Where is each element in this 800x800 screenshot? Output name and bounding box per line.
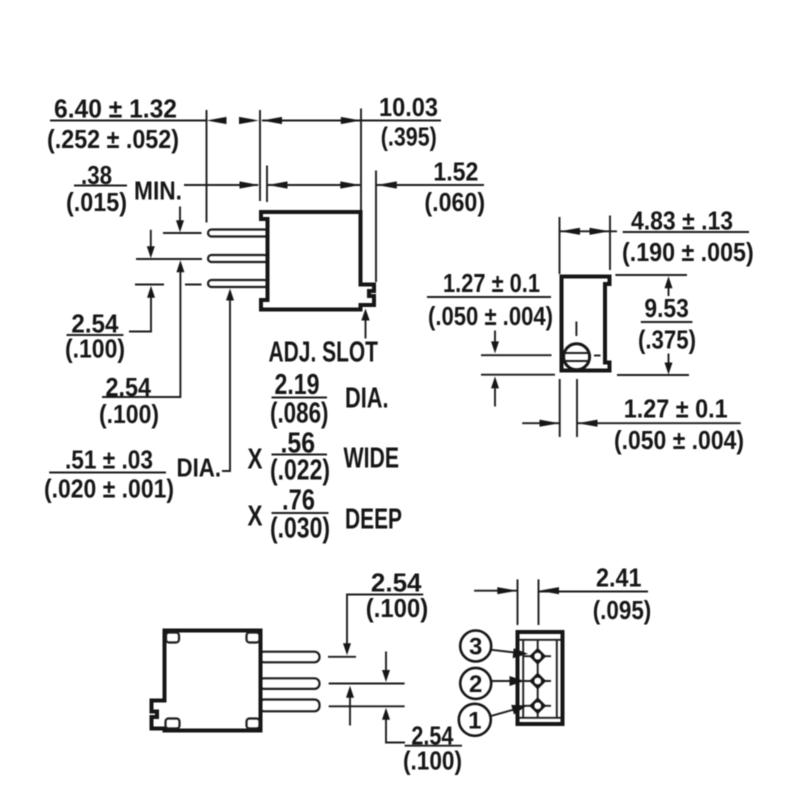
trimmer body front view	[562, 277, 610, 371]
fraction bar 9.53	[641, 321, 693, 323]
svg-text:2.41: 2.41	[596, 565, 642, 593]
pin 3 terminal diamond	[529, 648, 546, 665]
arrow down at rear pin middle	[385, 652, 387, 671]
dimension line 4.83	[560, 230, 617, 232]
pin view inner bottom line	[520, 717, 561, 719]
extension line front body right x=610	[609, 216, 611, 271]
arrow right at 517.3	[497, 587, 517, 594]
svg-text:(.022): (.022)	[270, 455, 330, 487]
corner pad bottom left	[166, 719, 180, 729]
rear view pin middle lead	[259, 678, 320, 689]
svg-text:(.050 ± .004): (.050 ± .004)	[614, 427, 744, 455]
svg-text:(.100): (.100)	[99, 401, 159, 429]
svg-text:(.086): (.086)	[270, 398, 329, 430]
arrow left at 577.5	[578, 420, 598, 427]
svg-text:1: 1	[468, 707, 481, 734]
trimmer body rear view with slot boss	[152, 631, 261, 731]
arrow up at rear pin middle	[349, 698, 351, 726]
arrow up at pin3 for wire dia leader	[226, 289, 234, 301]
extension line pin3 center dashed	[135, 284, 164, 286]
svg-text:(.395): (.395)	[381, 124, 437, 152]
svg-text:(.375): (.375)	[638, 327, 696, 355]
pin 1 terminal diamond	[529, 697, 546, 714]
rear view pin top lead	[259, 652, 320, 663]
rear view pin bottom lead	[259, 700, 320, 712]
leader from circle 2 to pin 2	[492, 680, 511, 682]
circle number 1	[459, 704, 491, 736]
extension line body bottom left	[481, 374, 555, 376]
arrow up at pin3 line with leader to 2.54 first	[147, 286, 155, 298]
dimension line 2.41 right piece with fraction bar	[539, 591, 648, 593]
fraction bar 2.54 bottom	[405, 745, 462, 747]
circle number 3	[460, 631, 491, 662]
fraction bar .76	[272, 512, 329, 514]
arrow down at pin2 line	[150, 230, 152, 248]
fraction bar .51	[49, 472, 166, 474]
arrow right at 360.3	[340, 181, 360, 188]
extension line below body left x=559.7	[559, 379, 561, 437]
circle number 2	[460, 668, 491, 699]
pin 1 (side view top lead)	[208, 230, 268, 237]
svg-text:DIA.: DIA.	[177, 455, 222, 483]
dimension line 2.41 left piece	[474, 590, 517, 592]
arrow right at 360.8	[341, 117, 361, 124]
svg-text:2.54: 2.54	[411, 723, 454, 751]
svg-text:6.40 ± 1.32: 6.40 ± 1.32	[54, 96, 177, 124]
arrow left at 206.5	[207, 117, 227, 124]
screw slot chord upper	[564, 352, 589, 354]
svg-text:(.030): (.030)	[270, 513, 330, 545]
screw centerline vertical dash	[575, 322, 577, 337]
extension line screw center left	[481, 354, 552, 356]
arrow left at 539	[539, 587, 559, 594]
svg-text:2.54: 2.54	[371, 570, 422, 598]
extension line pin shoulder x=267	[266, 166, 268, 203]
arrow left at 560	[560, 228, 580, 235]
arrow up at rear pin bottom with leader to 2.54 bottom	[386, 720, 405, 743]
fraction bar 4.83	[623, 231, 749, 233]
fraction bar .38	[74, 185, 127, 187]
screw slot chord lower	[564, 360, 589, 362]
pin view inner top line	[520, 639, 561, 641]
extension line pinview left x=517.5	[517, 579, 519, 625]
arrow right at 609.5	[590, 228, 610, 235]
extension line rear pin middle	[329, 683, 405, 685]
leader from circle 1 to pin 1	[490, 710, 514, 717]
arrow right at 259	[239, 117, 259, 124]
svg-text:4.83 ± .13: 4.83 ± .13	[631, 208, 733, 236]
svg-text:9.53: 9.53	[644, 295, 688, 323]
svg-text:(.060): (.060)	[424, 189, 485, 217]
extension line body right edge x=361	[360, 109, 362, 211]
svg-text:(.252 ± .052): (.252 ± .052)	[47, 126, 179, 154]
pin3 cross stub	[524, 655, 552, 657]
svg-text:2: 2	[469, 671, 482, 698]
svg-text:.38: .38	[81, 162, 112, 190]
svg-text:3: 3	[469, 634, 482, 661]
pin 2 (side view middle lead)	[208, 255, 268, 262]
svg-text:1.52: 1.52	[433, 159, 478, 187]
extension line rear pin bottom	[329, 705, 405, 707]
arrow left at 262	[262, 117, 282, 124]
svg-text:(.015): (.015)	[66, 189, 127, 217]
extension line body top right	[615, 274, 687, 276]
arrow left at 376.8	[377, 181, 397, 188]
extension line pinview pin center x=538.5	[538, 579, 540, 625]
dimension line 1.52 right part with text underline	[377, 184, 484, 186]
svg-text:ADJ. SLOT: ADJ. SLOT	[269, 337, 379, 369]
corner pad top right	[247, 633, 260, 643]
leader from circle 3 to pin 3	[491, 650, 515, 653]
svg-text:(.100): (.100)	[403, 748, 462, 776]
screw centerline horizontal dash	[594, 355, 601, 357]
svg-text:10.03: 10.03	[379, 94, 438, 122]
dimension line 1.27 lower right piece with fraction bar	[578, 422, 741, 424]
corner pad top left	[166, 633, 179, 643]
pin2 cross stub	[524, 680, 552, 682]
fraction bar 2.19	[272, 397, 328, 399]
fraction bar .56	[272, 454, 328, 456]
extension line pin tips x=206.5	[206, 110, 208, 223]
svg-text:DEEP: DEEP	[345, 504, 402, 536]
arrow right at 259.5	[240, 181, 260, 188]
svg-text:(.020 ± .001): (.020 ± .001)	[44, 476, 174, 504]
leader 2.54 top with down arrow	[347, 595, 423, 646]
extension line pin2 center	[136, 258, 202, 260]
arrow down at screw center line	[494, 331, 496, 343]
dimension line 1.52 left part	[268, 184, 361, 186]
arrow down at pin1 line	[179, 207, 181, 222]
extension line front body left x=559.5	[559, 217, 561, 274]
pin view inner right line	[556, 640, 558, 718]
arrow up at pin2 line with leader to 2.54 second	[176, 260, 184, 272]
pin view inner left line	[522, 640, 524, 718]
svg-text:X: X	[248, 501, 264, 533]
arrow down 9.53	[668, 354, 670, 364]
extension line body left edge x=260	[259, 110, 261, 201]
svg-text:(.100): (.100)	[366, 595, 428, 623]
arrow up 9.53	[668, 288, 670, 297]
fraction bar 2.54 first	[67, 334, 124, 336]
svg-text:MIN.: MIN.	[134, 178, 182, 206]
extension line pin3 center dash 2	[185, 284, 202, 286]
arrow right at 559.5	[540, 420, 560, 427]
svg-text:(.050 ± .004): (.050 ± .004)	[428, 303, 553, 331]
pin 2 terminal diamond	[529, 673, 546, 690]
svg-text:.51 ± .03: .51 ± .03	[65, 447, 153, 475]
arrow up at body bottom line	[494, 389, 496, 407]
trimmer body side view	[261, 212, 374, 310]
dimension line .38 MIN	[184, 184, 258, 186]
pin1 cross stub	[524, 705, 552, 707]
extension line slot boss x=376	[375, 171, 377, 283]
extension line below body screw center x=577	[576, 379, 578, 437]
svg-text:1.27 ± 0.1: 1.27 ± 0.1	[624, 396, 728, 424]
svg-text:X: X	[248, 444, 264, 476]
dimension line 6.40	[50, 120, 207, 122]
pin view body outer	[518, 632, 563, 724]
pin 3 (side view bottom lead)	[208, 280, 268, 287]
pin centerline chain	[537, 640, 539, 718]
svg-text:DIA.: DIA.	[345, 383, 389, 415]
corner pad bottom right	[247, 719, 260, 729]
dimension line 10.03	[262, 120, 441, 122]
arrow left at 267.5	[268, 181, 288, 188]
extension line pin1 center	[163, 232, 202, 234]
svg-text:2.19: 2.19	[275, 369, 320, 401]
svg-text:(.095): (.095)	[593, 597, 652, 625]
svg-text:2.54: 2.54	[71, 311, 119, 339]
svg-text:WIDE: WIDE	[344, 443, 400, 475]
svg-text:(.190 ± .005): (.190 ± .005)	[622, 239, 754, 267]
svg-text:(.100): (.100)	[65, 336, 125, 364]
svg-text:1.27 ± 0.1: 1.27 ± 0.1	[443, 270, 540, 298]
dimension line 1.27 lower left piece	[522, 422, 559, 424]
extension line rear pin top	[328, 656, 356, 658]
adjustment screw circle	[564, 344, 590, 370]
svg-text:2.54: 2.54	[106, 374, 152, 402]
fraction bar 1.27 upper	[427, 296, 551, 298]
extension line body bottom right	[617, 374, 689, 376]
adj slot leader arrow	[365, 320, 367, 339]
